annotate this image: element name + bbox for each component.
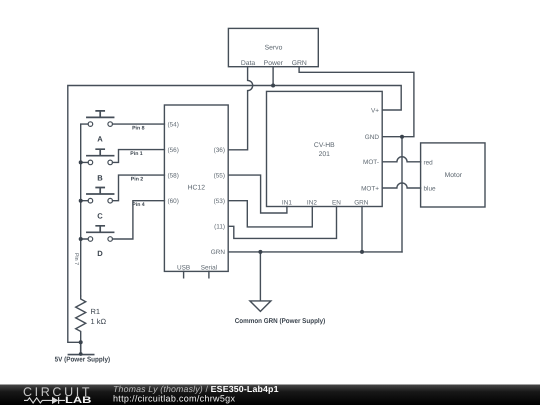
svg-text:V+: V+: [371, 107, 379, 114]
junction dot GND node: [400, 135, 404, 139]
svg-text:http://circuitlab.com/chrw5gx: http://circuitlab.com/chrw5gx: [113, 394, 235, 404]
wire: HC12 (55) to CV-HB IN1: [228, 175, 287, 213]
resistor R1: [76, 296, 86, 342]
wire: button A to HC12 pin (54): [113, 123, 165, 125]
wire: CV-HB GRN pin to ground rail: [361, 207, 363, 252]
svg-text:Common GRN (Power Supply): Common GRN (Power Supply): [235, 318, 326, 325]
svg-text:(11): (11): [214, 224, 225, 231]
svg-text:MOT+: MOT+: [361, 185, 379, 192]
junction dot at 5V supply bar: [79, 352, 83, 356]
motor M1 box: [421, 143, 485, 207]
svg-text:Servo: Servo: [265, 45, 283, 52]
wire: servo Data to HC12 pin (36): [228, 67, 252, 150]
svg-text:1 kΩ: 1 kΩ: [91, 317, 107, 326]
svg-text:201: 201: [319, 151, 331, 158]
svg-text:C: C: [97, 212, 103, 221]
wire: Pin 7 net (5V rail to servo power and V+): [68, 86, 401, 343]
svg-text:A: A: [97, 135, 103, 144]
power supply V1 5V symbol: [68, 342, 93, 354]
svg-text:Power: Power: [264, 60, 284, 67]
svg-text:(58): (58): [168, 173, 179, 180]
svg-text:(54): (54): [168, 121, 179, 128]
svg-text:(36): (36): [214, 147, 225, 154]
junction dot rail B: [79, 160, 83, 164]
wire: HC12 GRN / common ground rail: [228, 251, 402, 253]
H-bridge U2 CV-HB 201 box: [267, 91, 383, 206]
svg-text:Pin 2: Pin 2: [131, 176, 144, 182]
svg-text:MOT-: MOT-: [363, 159, 379, 166]
svg-text:Data: Data: [241, 60, 256, 67]
wire: button C to HC12 pin (58): [113, 175, 165, 201]
junction dot rail D: [79, 237, 83, 241]
wire: HC12 (11) to CV-HB EN: [228, 207, 336, 239]
pushbutton SW_C: [87, 188, 114, 204]
servo U3 box: [228, 28, 318, 66]
svg-text:HC12: HC12: [188, 185, 206, 192]
svg-text:Pin 7: Pin 7: [73, 253, 79, 265]
svg-text:Thomas Ly (thomasly) / ESE350-: Thomas Ly (thomasly) / ESE350-Lab4p1: [113, 384, 279, 394]
svg-text:5V (Power Supply): 5V (Power Supply): [55, 356, 111, 363]
wire: CV-HB GND stub: [382, 137, 402, 252]
svg-text:blue: blue: [424, 186, 437, 193]
wire: CV-HB MOT- to motor red: [382, 157, 420, 162]
footer logo resistor-diode glyph: [24, 397, 65, 404]
HC12 USB stub: [183, 271, 185, 277]
pushbutton SW_B: [87, 149, 114, 165]
svg-text:(56): (56): [168, 147, 179, 154]
svg-text:USB: USB: [177, 265, 190, 272]
svg-text:CV-HB: CV-HB: [314, 142, 335, 149]
svg-text:Serial: Serial: [201, 265, 217, 272]
pushbutton SW_D: [87, 226, 114, 242]
svg-text:Pin 1: Pin 1: [130, 151, 143, 157]
wire: button B to HC12 pin (56): [113, 150, 165, 163]
svg-text:GRN: GRN: [211, 249, 226, 256]
junction dot ground rail right: [360, 250, 364, 254]
junction dot servo power: [271, 84, 275, 88]
pushbutton SW_A: [87, 111, 114, 126]
HC12 U1 box: [164, 105, 228, 271]
junction dot rail C: [79, 199, 83, 203]
ground symbol: [250, 252, 271, 312]
svg-text:(53): (53): [214, 198, 225, 205]
svg-text:IN2: IN2: [307, 200, 317, 207]
footer bar: [0, 385, 540, 405]
svg-text:(60): (60): [168, 198, 179, 205]
svg-text:B: B: [97, 173, 103, 182]
junction dot R1 bottom: [79, 340, 83, 344]
svg-text:IN1: IN1: [282, 200, 292, 207]
svg-text:(55): (55): [214, 173, 225, 180]
wire: CV-HB MOT+ to motor blue: [382, 183, 420, 188]
wire: button D to HC12 pin (60): [113, 201, 165, 239]
junction dot ground rail left: [258, 250, 262, 254]
svg-text:Motor: Motor: [445, 172, 463, 179]
wire: HC12 (53) to CV-HB IN2: [228, 201, 312, 227]
HC12 Serial stub: [208, 271, 210, 277]
svg-text:GRN: GRN: [292, 60, 307, 67]
svg-text:LAB: LAB: [65, 395, 92, 405]
svg-text:D: D: [97, 249, 103, 258]
svg-text:R1: R1: [91, 307, 101, 316]
wire: servo GRN to GND node: [299, 67, 414, 137]
svg-text:GND: GND: [365, 134, 380, 141]
svg-text:EN: EN: [332, 200, 341, 207]
wire: left rail joining buttons to R1: [81, 124, 88, 296]
svg-text:GRN: GRN: [354, 200, 369, 207]
wire: servo Power stub: [272, 67, 274, 86]
svg-text:Pin 8: Pin 8: [132, 126, 145, 132]
svg-text:red: red: [424, 160, 434, 167]
svg-text:Pin 4: Pin 4: [132, 202, 145, 208]
